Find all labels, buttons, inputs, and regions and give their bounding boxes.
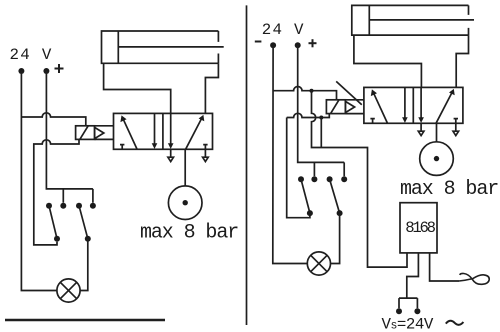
valve V2 body (4/2 way) xyxy=(364,87,463,123)
switch S1 pivot dot xyxy=(46,203,52,209)
exhaust stem and triangle 2 xyxy=(204,149,206,157)
cylinder A1 piston xyxy=(117,31,119,63)
svg-text:max 8 bar: max 8 bar xyxy=(400,178,498,201)
wire W1 rail L1 to solenoid top (hops over L2) xyxy=(21,113,85,126)
wire drop to switch contact 2 xyxy=(92,189,94,203)
switch S4 arm xyxy=(330,179,340,213)
switch S3 fixed contact dot xyxy=(311,176,317,182)
valve V1 left cell down arrow xyxy=(154,113,156,144)
svg-text:24 V: 24 V xyxy=(10,46,53,64)
solenoid Y1 coil box xyxy=(76,126,95,140)
valve V1 right cell diagonal arrow xyxy=(186,118,202,149)
wire rail L1 (0V rail down to lamp) xyxy=(21,71,57,291)
pilot rails to valve right xyxy=(345,99,364,101)
switch S4 pivot dot xyxy=(327,176,333,182)
switch S4 output dot xyxy=(337,210,343,216)
switch S3 output dot xyxy=(307,210,313,216)
valve V1 body (4/2 way) xyxy=(114,113,213,149)
switch S3 arm xyxy=(301,179,310,213)
terminal dot left plus xyxy=(43,68,49,74)
minus sign (right supply) xyxy=(255,41,262,43)
supply line right xyxy=(436,123,438,142)
exhaust stem and triangle 4 xyxy=(455,123,457,131)
terminal dot right minus xyxy=(270,42,276,48)
circuit divider line xyxy=(246,5,248,325)
valve V1 left cell blocked port T xyxy=(120,145,124,149)
valve V2 port A to cylinder left port xyxy=(354,35,422,87)
compressed air source circle xyxy=(168,186,202,220)
supply line from source to valve xyxy=(184,149,186,186)
wire W2 solenoid bottom to switch output (hops over L2) xyxy=(34,139,79,245)
switch S2 output dot xyxy=(85,236,91,242)
valve V2 left cell down arrow xyxy=(404,87,406,118)
wire W2 left branch down to switch S3 output xyxy=(287,118,310,218)
svg-text:24 V: 24 V xyxy=(262,21,305,39)
lamp H1 (indicator light) xyxy=(57,279,80,302)
wire branch B from W2 down to branch A xyxy=(320,118,322,148)
switch S1 arm xyxy=(49,206,57,239)
wire rail R1 (down to lamp) xyxy=(273,45,308,263)
wire W2 right switch output to solenoid bottom (hops over R2) xyxy=(287,113,330,117)
valve V2 left cell diagonal arrow xyxy=(373,93,387,123)
electronic unit 8168 box xyxy=(400,203,437,253)
pilot triangle right xyxy=(345,101,354,112)
compressed air source circle right xyxy=(420,142,454,176)
supply terminal dot 1 xyxy=(396,308,402,314)
valve V2 right cell down arrow xyxy=(420,87,422,118)
wire drop to switch contact 1 xyxy=(62,189,64,203)
solenoid Y2 coil box xyxy=(326,100,345,114)
wire rail R2 (down to switches) xyxy=(298,45,345,162)
valve V2 cell divider xyxy=(412,87,414,123)
switch S2 fixed contact dot xyxy=(90,203,96,209)
wire S4 output to lamp right xyxy=(331,213,340,263)
unit pin C wire to cable xyxy=(430,253,459,281)
cylinder A2 rod xyxy=(369,19,474,21)
wire rail L2 (+ rail down to switches) xyxy=(46,71,93,189)
plus sign (right supply) xyxy=(309,39,317,47)
cylinder A1 rod xyxy=(118,46,223,48)
junction dot on W1 right xyxy=(310,89,314,93)
cylinder A1 body xyxy=(102,31,219,63)
valve V1 left cell diagonal arrow xyxy=(123,119,137,149)
wire W1 right rail R1 to solenoid top (hops over R2) xyxy=(273,87,337,100)
switch S1 fixed contact dot xyxy=(60,203,66,209)
switch S2 arm xyxy=(79,206,88,239)
svg-text:Vs=24V: Vs=24V xyxy=(382,316,434,332)
cylinder A2 body xyxy=(352,5,469,35)
exhaust stem and triangle 3 xyxy=(420,123,422,131)
wire drop to switch contact 1 right xyxy=(313,162,315,176)
switch S4 fixed contact dot xyxy=(341,176,347,182)
plus sign (left supply) xyxy=(55,64,64,73)
wire drop to switch contact 2 right xyxy=(343,162,345,176)
cylinder A2 piston xyxy=(368,5,370,35)
valve port B to cylinder right port xyxy=(205,63,218,113)
valve V2 left cell blocked port T xyxy=(370,119,374,123)
valve V1 right cell blocked port T xyxy=(203,145,207,149)
manual override slash xyxy=(336,81,362,104)
AC tilde symbol xyxy=(446,321,464,325)
valve V1 right cell down arrow xyxy=(170,113,172,144)
exhaust stem and triangle 1 xyxy=(170,149,172,157)
unit pin B wire to supply terminals xyxy=(399,253,418,308)
switch S3 pivot dot xyxy=(298,176,304,182)
valve V2 right cell blocked port T xyxy=(454,119,458,123)
lamp H2 (indicator light) xyxy=(307,252,330,275)
terminal dot right plus xyxy=(295,42,301,48)
cable pigtail squiggle xyxy=(459,273,489,284)
pilot triangle xyxy=(95,127,104,138)
valve V2 right cell diagonal arrow xyxy=(436,92,452,123)
wire S2 output to lamp right xyxy=(80,239,88,291)
switch S1 output dot xyxy=(54,236,60,242)
valve port A to cylinder left port xyxy=(104,63,171,113)
svg-text:max 8 bar: max 8 bar xyxy=(140,222,238,245)
terminal dot left 24V xyxy=(18,68,24,74)
wire branch A from W1 to unit 8168 pin A (hops right over W2) xyxy=(312,91,408,267)
valve V1 cell divider xyxy=(162,113,164,149)
pilot rails to valve xyxy=(95,125,114,127)
junction dot on W2 right xyxy=(319,116,323,120)
supply terminal dot 2 xyxy=(414,308,420,314)
bottom border segment xyxy=(5,319,165,321)
switch S2 pivot dot xyxy=(76,203,82,209)
valve V2 port B to cylinder right port xyxy=(456,35,468,87)
svg-text:8168: 8168 xyxy=(405,219,435,237)
